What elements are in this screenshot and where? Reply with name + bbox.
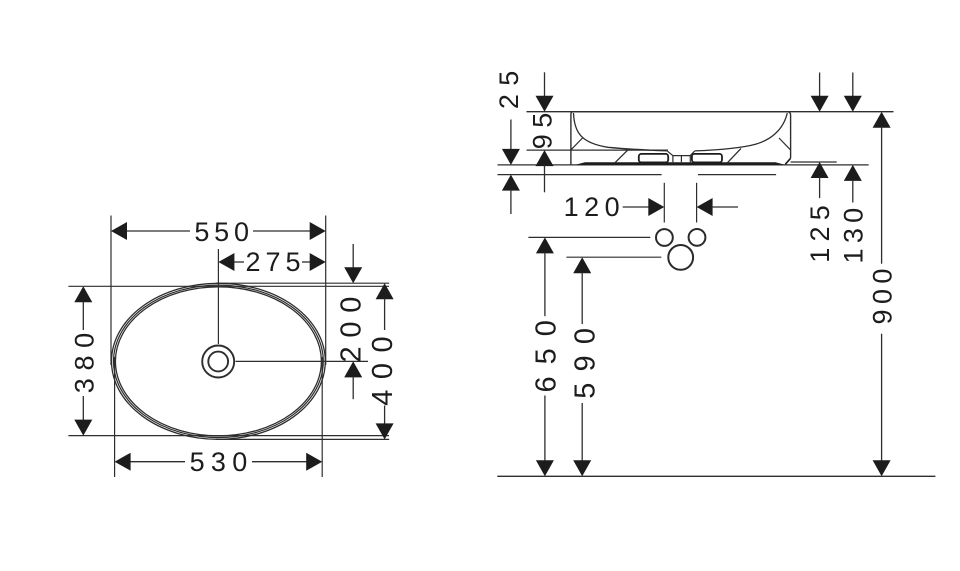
extension line right inner (530) (321, 357, 323, 477)
dimension 900 top arrow (873, 112, 891, 128)
dimension 380 top arrow (74, 286, 92, 302)
dimension 95 bottom tail (544, 165, 546, 192)
basin middle rim ellipse (113, 285, 323, 437)
dimension 590 line bottom (581, 403, 583, 461)
dimension 120 line left (623, 206, 650, 208)
125 level line (791, 161, 837, 163)
basin outer ellipse (111, 283, 325, 439)
dimension 130 top arrow (844, 96, 862, 112)
dimension 125 bottom tail (819, 177, 821, 198)
dimension 120 text (564, 192, 626, 222)
bowl underside level line (527, 149, 669, 151)
dimension 400 line top (384, 298, 386, 330)
svg-text:125: 125 (805, 199, 835, 263)
svg-text:380: 380 (69, 325, 99, 393)
counter bottom line left segment (498, 174, 662, 176)
dimension 400 top arrow (376, 283, 394, 299)
svg-text:530: 530 (190, 447, 254, 477)
dimension 650 line top (544, 252, 546, 316)
svg-text:550: 550 (194, 217, 253, 247)
counter bottom line right segment (698, 174, 776, 176)
drain pad right (692, 154, 722, 163)
dimension 900 text (868, 263, 898, 324)
dimension 380 text (69, 325, 99, 393)
leader line 650 (528, 236, 650, 238)
basin bottom-right chamfer (785, 158, 790, 164)
dimension 275 right arrow (310, 253, 326, 271)
dimension 650 top arrow (536, 237, 554, 253)
dimension 125 top tail (819, 73, 821, 97)
dimension 125 bottom arrow (811, 162, 829, 178)
dimension 275 text (245, 247, 305, 277)
dimension 590 top arrow (573, 257, 591, 273)
dimension 95 text (527, 106, 557, 149)
dimension 25 bottom arrow (502, 175, 520, 191)
svg-text:900: 900 (868, 263, 898, 324)
dimension 25 top tail (510, 120, 512, 150)
svg-text:275: 275 (245, 247, 305, 277)
supply hole right circle (689, 229, 706, 246)
dimension 130 top tail (852, 73, 854, 97)
dimension 275 left arrow (218, 253, 234, 271)
dimension 95 top arrow (536, 96, 554, 112)
dimension 900 bottom arrow (873, 460, 891, 476)
dimension 125 top arrow (811, 96, 829, 112)
dimension 25 text (494, 62, 524, 109)
dimension 550 left arrow (111, 222, 127, 240)
svg-text:120: 120 (564, 192, 626, 222)
dimension 120 extension line right (696, 183, 698, 223)
dimension 400 line bottom (384, 406, 386, 425)
dimension 130 bottom arrow (844, 165, 862, 181)
dimension 900 line top (881, 127, 883, 264)
extension line top inner (380) (68, 285, 389, 287)
dimension 530 left arrow (115, 453, 131, 471)
bowl inner curve left (574, 113, 668, 151)
svg-text:590: 590 (569, 317, 601, 399)
svg-text:25: 25 (494, 62, 524, 109)
dimension 95 top tail (544, 72, 546, 96)
basin outline (571, 112, 791, 165)
dimension 380 bottom arrow (74, 420, 92, 436)
center vertical line (217, 249, 219, 344)
dimension 530 line (130, 461, 307, 463)
dimension 120 right-pointing arrow (648, 198, 664, 216)
extension line left inner (530) (114, 357, 116, 477)
dimension 200 bottom arrow tail (352, 376, 354, 399)
dimension 400 bottom arrow (376, 423, 394, 439)
extension line top outer (400) (216, 282, 389, 284)
dimension 125 text (805, 199, 835, 263)
dimension 380 line (82, 301, 84, 420)
basin inner rim ellipse (115, 287, 321, 436)
basin top level line (527, 111, 894, 113)
drain funnel (668, 151, 695, 162)
dimension 130 text (838, 202, 868, 263)
bowl inner curve right (695, 113, 788, 151)
svg-text:400: 400 (367, 326, 399, 406)
foot diagonal left (615, 149, 630, 163)
dimension 650 bottom arrow (536, 460, 554, 476)
dimension 120 extension line left (663, 183, 665, 223)
dimension 530 text (190, 447, 254, 477)
dimension 900 line bottom (881, 334, 883, 462)
drain pad left (639, 154, 668, 163)
dimension 590 text (569, 317, 601, 399)
dimension 650 text (531, 308, 563, 392)
wall diagonal left (571, 138, 583, 150)
dimension 530 right arrow (306, 453, 322, 471)
basin bottom thick edge (575, 162, 785, 165)
dimension 200 bottom arrow (344, 361, 362, 377)
drain stem (680, 156, 682, 163)
dimension 650 line bottom (544, 396, 546, 462)
dimension 275 line (233, 261, 310, 263)
dimension 200 top arrow (344, 267, 362, 283)
dimension 550 text (194, 217, 253, 247)
foot diagonal right (727, 148, 741, 163)
dimension 200 top arrow tail (352, 244, 354, 268)
svg-text:650: 650 (531, 308, 563, 392)
dimension 550 right arrow (310, 222, 326, 240)
extension line left outer (550) (110, 216, 112, 366)
dimension 25 top arrow (502, 149, 520, 165)
counter top line (498, 164, 869, 166)
dimension 200 text (336, 288, 368, 363)
dimension 550 line (126, 230, 311, 232)
extension line bottom outer (400) (216, 438, 389, 440)
extension line right outer (550/275) (325, 216, 327, 366)
dimension 120 line right (712, 206, 738, 208)
dimension 590 bottom arrow (573, 460, 591, 476)
wall diagonal right (779, 138, 790, 150)
drain outer circle (202, 346, 234, 378)
leader line 590 (566, 256, 661, 258)
drain inner circle (208, 352, 228, 372)
drain hole circle (668, 245, 693, 270)
dimension 130 bottom tail (852, 180, 854, 203)
center horizontal line (236, 360, 369, 362)
dimension 95 bottom arrow (536, 150, 554, 166)
extension line bottom inner (380) (68, 435, 389, 437)
dimension 590 line top (581, 272, 583, 324)
floor line (497, 475, 935, 477)
dimension 400 text (367, 326, 399, 406)
svg-text:130: 130 (838, 202, 868, 263)
svg-text:95: 95 (527, 106, 557, 149)
svg-text:200: 200 (336, 288, 368, 363)
dimension 120 left-pointing arrow (697, 198, 713, 216)
supply hole left circle (656, 229, 673, 246)
dimension 25 bottom tail (510, 190, 512, 214)
